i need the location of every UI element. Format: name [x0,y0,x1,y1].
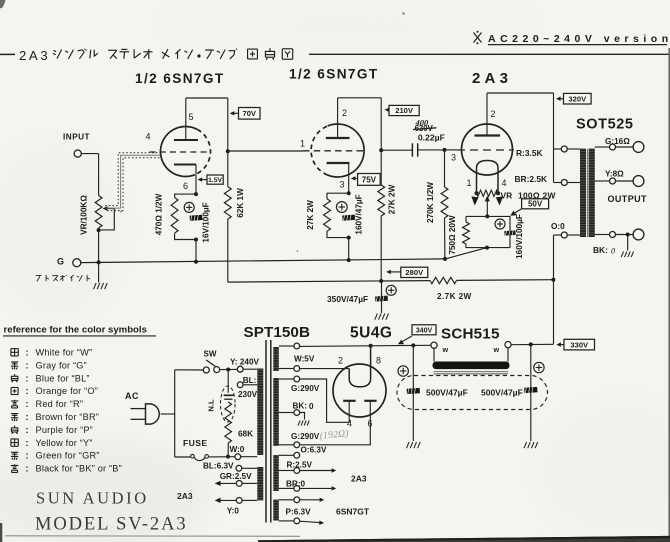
svg-text::: : [26,464,29,474]
svg-text:2.7K 2W: 2.7K 2W [437,292,472,301]
svg-text:White for “W”: White for “W” [36,348,93,358]
svg-text:2A3: 2A3 [177,491,193,501]
svg-text::: : [26,386,29,396]
svg-text:27K 2W: 27K 2W [388,184,397,214]
svg-text:5: 5 [189,112,194,122]
svg-text:3: 3 [340,180,345,190]
svg-text:BR:2.5K: BR:2.5K [515,174,548,184]
svg-text:R:2.5V: R:2.5V [287,461,313,470]
svg-text:2: 2 [491,109,496,119]
svg-text:50V: 50V [528,200,543,209]
svg-text::: : [26,399,29,409]
svg-text:O:0: O:0 [551,222,565,231]
svg-text:0: 0 [309,402,314,411]
svg-text:340V: 340V [416,327,433,334]
svg-text::: : [26,425,29,435]
svg-text:AC: AC [125,391,139,401]
svg-text::: : [26,373,29,383]
svg-text:70V: 70V [242,109,256,118]
svg-text:P:6.3V: P:6.3V [286,508,312,517]
svg-text:G:290V: G:290V [291,384,320,393]
svg-text:350V/47µF: 350V/47µF [327,294,368,304]
svg-text:2A3: 2A3 [472,70,512,87]
svg-text:2: 2 [338,356,343,366]
svg-text:BL:: BL: [243,376,257,385]
svg-text::: : [26,360,29,370]
svg-text:MODEL SV-2A3: MODEL SV-2A3 [35,515,187,535]
svg-text:Purple for “P”: Purple for “P” [36,425,93,435]
svg-text:6SN7GT: 6SN7GT [336,506,370,516]
svg-text:FUSE: FUSE [183,438,208,448]
svg-text:500V/47µF: 500V/47µF [481,388,523,398]
svg-text:160V/47µF: 160V/47µF [355,194,364,234]
svg-text:1/2 6SN7GT: 1/2 6SN7GT [135,71,225,86]
svg-text:Y: 240V: Y: 240V [230,357,260,366]
svg-text:8: 8 [376,356,381,366]
svg-text:75V: 75V [362,175,377,184]
svg-text:Green for “GR”: Green for “GR” [36,451,100,461]
svg-text:BK:: BK: [593,245,608,255]
svg-text:BL:6.3V: BL:6.3V [203,461,234,470]
svg-text:SCH515: SCH515 [441,326,500,343]
svg-text:4: 4 [146,132,151,142]
svg-text:1: 1 [300,139,305,149]
svg-text:w: w [493,345,500,354]
svg-text:330V: 330V [570,340,589,349]
svg-text:reference for the color symbol: reference for the color symbols [4,325,147,336]
svg-text:N.L: N.L [207,399,216,412]
svg-text:BR:0: BR:0 [286,479,306,488]
svg-text:3: 3 [451,153,456,163]
svg-text:Orange for “O”: Orange for “O” [36,386,99,396]
svg-text:Y:8Ω: Y:8Ω [605,170,624,179]
svg-text::: : [26,412,29,422]
svg-text:1/2 6SN7GT: 1/2 6SN7GT [289,67,379,82]
svg-text:270K 1/2W: 270K 1/2W [426,182,435,223]
svg-text:w: w [442,345,449,354]
svg-text:SW: SW [204,350,217,359]
svg-text::: : [26,348,29,358]
svg-text:Yellow for “Y”: Yellow for “Y” [36,438,93,448]
svg-text:750Ω 20W: 750Ω 20W [448,215,457,255]
svg-text:R:3.5K: R:3.5K [516,148,543,158]
svg-text:0.22µF: 0.22µF [418,132,445,142]
svg-text:2: 2 [342,108,347,118]
svg-text:VR: VR [501,190,513,200]
svg-text:470Ω 1/2W: 470Ω 1/2W [155,193,164,235]
svg-text:GR:2.5V: GR:2.5V [220,472,252,481]
svg-text:G:16Ω: G:16Ω [605,137,630,146]
svg-text:G: G [57,257,64,267]
svg-text:BK:: BK: [293,402,308,411]
svg-text:160V/100µF: 160V/100µF [515,214,524,259]
svg-text:1.5V: 1.5V [208,177,222,184]
svg-text:4: 4 [502,178,507,188]
svg-text:280V: 280V [405,268,424,277]
svg-text:1: 1 [467,178,472,188]
svg-text::: : [26,451,29,461]
svg-text:G:290V: G:290V [291,432,320,441]
svg-text:230V: 230V [238,390,258,399]
svg-text:Black for “BK” or “B”: Black for “BK” or “B” [36,464,122,474]
svg-text:16V/100µF: 16V/100µF [201,202,210,242]
svg-text:Red for “R”: Red for “R” [36,399,84,409]
svg-text:62K 1W: 62K 1W [236,188,245,218]
svg-text:Blue for “BL”: Blue for “BL” [36,373,90,383]
svg-text:4: 4 [347,419,352,429]
svg-text:OUTPUT: OUTPUT [608,194,648,204]
svg-text:68K: 68K [238,430,253,439]
svg-text:SUN AUDIO: SUN AUDIO [36,489,149,508]
svg-text:Y:0: Y:0 [227,507,240,516]
svg-text:2A3: 2A3 [351,474,367,484]
svg-text::: : [26,438,29,448]
svg-text:320V: 320V [568,94,587,103]
svg-text:INPUT: INPUT [63,133,90,142]
svg-text:210V: 210V [395,106,414,115]
svg-text:2A3: 2A3 [19,48,50,63]
svg-text:SPT150B: SPT150B [244,324,311,341]
svg-text:AC220~240V version: AC220~240V version [488,33,670,45]
svg-text:Gray for “G”: Gray for “G” [36,360,87,370]
svg-text:SOT525: SOT525 [576,117,634,133]
svg-text:27K 2W: 27K 2W [306,200,315,230]
svg-text:6: 6 [368,419,373,429]
svg-text:O:6.3V: O:6.3V [301,445,327,454]
svg-text:W:5V: W:5V [294,355,315,364]
svg-text:VR/100KΩ: VR/100KΩ [80,195,89,235]
svg-text:5U4G: 5U4G [350,325,393,342]
svg-text:Brown for “BR”: Brown for “BR” [36,412,100,422]
svg-text:500V/47µF: 500V/47µF [426,388,468,398]
svg-text:6: 6 [183,181,188,191]
svg-text:W:0: W:0 [230,445,245,454]
